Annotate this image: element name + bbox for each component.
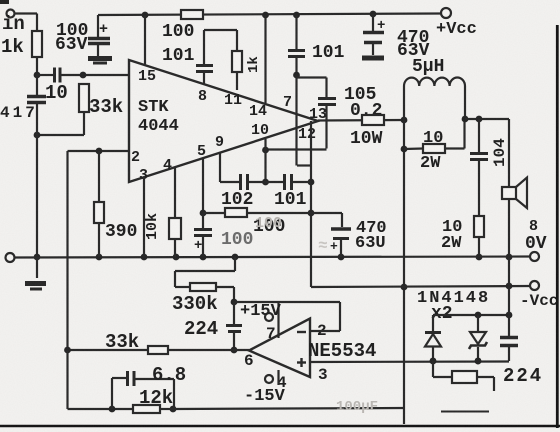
svg-text:≈: ≈ [318, 237, 328, 255]
svg-text:100μF: 100μF [336, 399, 378, 415]
svg-text:100: 100 [255, 215, 282, 232]
